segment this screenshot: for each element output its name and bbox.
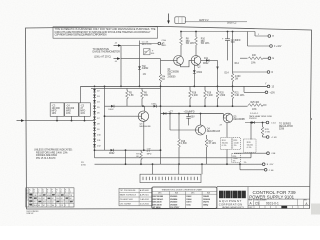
capacitor C1 [142, 42, 152, 47]
revisions approvals table bottom left [25, 188, 74, 207]
capacitor C2 [222, 32, 241, 61]
terminal C4E [234, 152, 276, 155]
wire parallel riser [104, 86, 106, 150]
wire upper mesh link [91, 87, 161, 89]
small parts list table [119, 188, 152, 206]
digital logo blocks [219, 191, 246, 199]
title number row [248, 199, 310, 206]
revisions left column marks [29, 194, 32, 206]
title bottom strip [248, 206, 310, 209]
resistor R6 [141, 88, 149, 106]
main bus wire [81, 85, 268, 87]
transistor Q3 [105, 106, 152, 150]
capacitor C8 [184, 111, 196, 125]
wire Q2 emitter down [193, 65, 195, 87]
wire to terminal upper [140, 43, 158, 45]
scan smudge bottom right [311, 204, 320, 215]
wire vertical left riser [120, 46, 122, 87]
transistor Q5 [220, 113, 246, 126]
transistor diode conversion chart [152, 187, 217, 209]
resistor R28 dashed box [244, 122, 257, 158]
resistor R23 box [233, 138, 241, 150]
wire lower left bus [25, 120, 95, 122]
resistor R4 [159, 59, 166, 165]
note to series regulator [279, 123, 293, 130]
wire J4 to C1 node [122, 45, 140, 47]
resistor R20 [216, 86, 226, 106]
terminal (F) +10V [248, 32, 282, 49]
diode D12 [138, 59, 149, 87]
resistor R29 [261, 122, 271, 137]
diode chain D2-D12 [93, 88, 101, 157]
terminal (H) top right [255, 32, 274, 39]
resistor R5 [126, 88, 135, 106]
wire with arrow down [216, 60, 229, 86]
second bus wire [105, 105, 248, 107]
top bus wire [181, 31, 255, 33]
top annotation arrow [167, 14, 170, 25]
wire vertical from loop row [125, 150, 127, 164]
notes unless otherwise indicated [34, 149, 73, 160]
resistor R17 [205, 135, 216, 164]
connector strip J1 [140, 164, 202, 182]
border frame [26, 26, 312, 209]
diode D15 [163, 112, 173, 115]
resistor R16 [178, 113, 188, 165]
terminal C to series regulator [245, 121, 276, 124]
diode D10 on second bus [109, 105, 115, 111]
junction dots on main bus [94, 86, 234, 88]
wire -15V bus [95, 157, 252, 159]
diode D13 [193, 70, 203, 74]
logo equipment corporation text [219, 199, 244, 209]
transistor Q1 [161, 56, 184, 79]
terminal -C R [263, 136, 278, 139]
junction dots top bus [180, 31, 233, 33]
diode D11 [200, 58, 217, 65]
terminal (A) [158, 42, 164, 45]
resistor R26 dashed box [232, 154, 247, 165]
resistor R12 400 with terminal E [240, 55, 275, 65]
diode D16 [109, 149, 115, 155]
diode D10B on second bus [152, 104, 158, 108]
wire node C1 vertical [139, 41, 141, 59]
transistor Q4 [170, 114, 221, 136]
resistor R25 [248, 102, 267, 111]
resistor R19 [204, 86, 214, 106]
note box top-left [53, 27, 158, 38]
resistor R18 [189, 86, 199, 106]
wire bottom of thermometer loop [121, 58, 161, 60]
label R1 [81, 162, 87, 167]
connector J4 arrow [114, 43, 122, 47]
junction dots ground bus [125, 163, 241, 165]
terminal +15V [244, 86, 275, 94]
top annotation leader line [185, 19, 247, 25]
resistor R8 [180, 32, 195, 57]
title text [249, 190, 296, 200]
mid bus wire [161, 113, 224, 115]
title block outline [217, 187, 310, 209]
connector J4 lower arrow [114, 57, 121, 63]
terminal lower C [240, 164, 274, 172]
terminal (13) [265, 84, 275, 89]
junction dots second bus [142, 105, 233, 107]
ground bus wire [95, 163, 263, 165]
capacitor C3 C4 C5 boxes [50, 86, 90, 116]
transistor Q2 [181, 56, 202, 69]
input arrow at left border [17, 119, 25, 122]
wires capacitor bottoms [57, 116, 85, 120]
resistor R7 [136, 150, 142, 164]
terminal (D) +10V [233, 71, 274, 74]
resistor R10 [195, 32, 210, 57]
resistor R14 [231, 32, 241, 87]
junction dots mid bus [169, 113, 201, 115]
note: to resistive divide thermometer [93, 48, 121, 59]
resistor R21 [231, 86, 244, 106]
junction dots loop row [94, 149, 162, 151]
terminal B -15V [262, 163, 274, 166]
top annotation connector symbol [175, 17, 186, 24]
resistor R24 dashed box [221, 122, 232, 164]
revision stamp marks [30, 194, 73, 202]
note tape heat sink [249, 115, 273, 120]
potentiometer R2 [144, 48, 155, 54]
junction dot Q3 base [104, 115, 106, 117]
wire loop row [95, 149, 161, 151]
scan speck right margin [310, 118, 312, 120]
capacitor C1A label [162, 39, 167, 47]
